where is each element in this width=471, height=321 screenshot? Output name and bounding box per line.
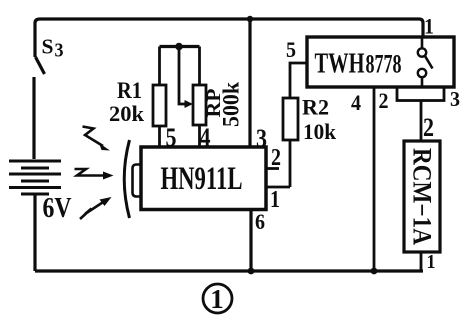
switch contact circle top	[418, 48, 426, 56]
wire pin 2 stub	[266, 167, 279, 170]
svg-text:1: 1	[210, 284, 224, 314]
switch contact circle bottom	[418, 69, 426, 77]
IR arrow 2 middle	[75, 169, 106, 176]
svg-text:3: 3	[450, 87, 460, 111]
svg-text:4: 4	[200, 123, 211, 152]
svg-text:HN911L: HN911L	[161, 161, 243, 197]
svg-text:20k: 20k	[109, 101, 145, 126]
wire pin 6 drop to bottom rail	[249, 210, 252, 272]
svg-text:500k: 500k	[219, 82, 244, 127]
svg-text:RCM−1A: RCM−1A	[408, 148, 437, 245]
wire R2 bottom lead	[289, 140, 292, 187]
IC U2 TWH8778 body	[307, 37, 454, 87]
svg-text:5: 5	[286, 37, 296, 62]
wire RP top lead	[198, 47, 201, 86]
svg-text:R1: R1	[117, 78, 142, 103]
svg-text:2: 2	[379, 88, 389, 113]
svg-text:6: 6	[255, 209, 265, 234]
svg-text:1: 1	[427, 251, 436, 273]
IR arrow 3 bottom	[80, 202, 104, 220]
figure number circle	[203, 284, 232, 313]
svg-text:3: 3	[55, 40, 64, 62]
node junction dot R1-RP bracket	[175, 43, 183, 51]
svg-text:1: 1	[270, 187, 280, 213]
svg-text:TWH: TWH	[315, 48, 365, 80]
svg-text:R2: R2	[302, 95, 329, 120]
svg-text:10k: 10k	[303, 119, 337, 144]
svg-text:3: 3	[256, 124, 267, 153]
svg-text:6V: 6V	[43, 193, 72, 224]
svg-text:2: 2	[271, 145, 281, 171]
IR arrow 1 top	[83, 127, 104, 147]
wire TWH8778 pin 2 drop to bottom rail	[373, 87, 376, 271]
RP wiper arrowhead	[185, 100, 194, 108]
wire R1 top lead	[158, 47, 161, 86]
resistor R2 body	[283, 98, 298, 140]
switch S3 blade	[36, 57, 45, 74]
wire RP bottom lead to pin 4	[198, 125, 201, 148]
wire bottom contact to output	[421, 77, 424, 87]
wire R2 top lead to TWH8778 pin 5	[290, 63, 307, 98]
wire bottom border rail	[35, 269, 423, 272]
svg-text:2: 2	[423, 113, 434, 142]
potentiometer RP body	[193, 85, 206, 125]
switch blade internal	[425, 56, 433, 69]
svg-text:5: 5	[166, 123, 177, 152]
wire TWH8778 pin 1 internal lead	[421, 37, 424, 48]
svg-text:S: S	[42, 35, 54, 59]
output block pin 3 box under TWH8778	[397, 87, 444, 101]
wire R1 bottom lead to pin 5	[158, 126, 161, 148]
wire RP wiper from junction	[179, 47, 186, 105]
wire pin 3 drop from top rail	[248, 19, 251, 148]
node junction dot bottom x=251	[248, 268, 255, 275]
wire top border rail	[35, 19, 423, 57]
resistor R1 body	[153, 85, 166, 126]
wire output box to relay	[420, 101, 423, 142]
relay RCM-1A body	[404, 141, 440, 252]
svg-text:4: 4	[351, 90, 361, 115]
svg-text:1: 1	[424, 14, 434, 39]
HN911L lens bump	[133, 165, 142, 197]
HN911L lens arc	[124, 140, 129, 218]
node junction dot bottom x=374	[371, 268, 378, 275]
wire left rail upper (switch to battery)	[32, 77, 35, 159]
wire relay pin 1 to bottom rail	[420, 252, 423, 271]
battery B1 6V plates	[9, 161, 61, 194]
wire left rail lower (battery to bottom rail)	[33, 196, 36, 272]
svg-text:8778: 8778	[366, 49, 402, 79]
wire R1-RP top bracket	[160, 45, 200, 48]
op-amp U1 HN911L body	[141, 147, 266, 210]
node junction dot top rail x=250	[247, 16, 253, 22]
wire pin 1 stub to R2	[266, 186, 290, 189]
